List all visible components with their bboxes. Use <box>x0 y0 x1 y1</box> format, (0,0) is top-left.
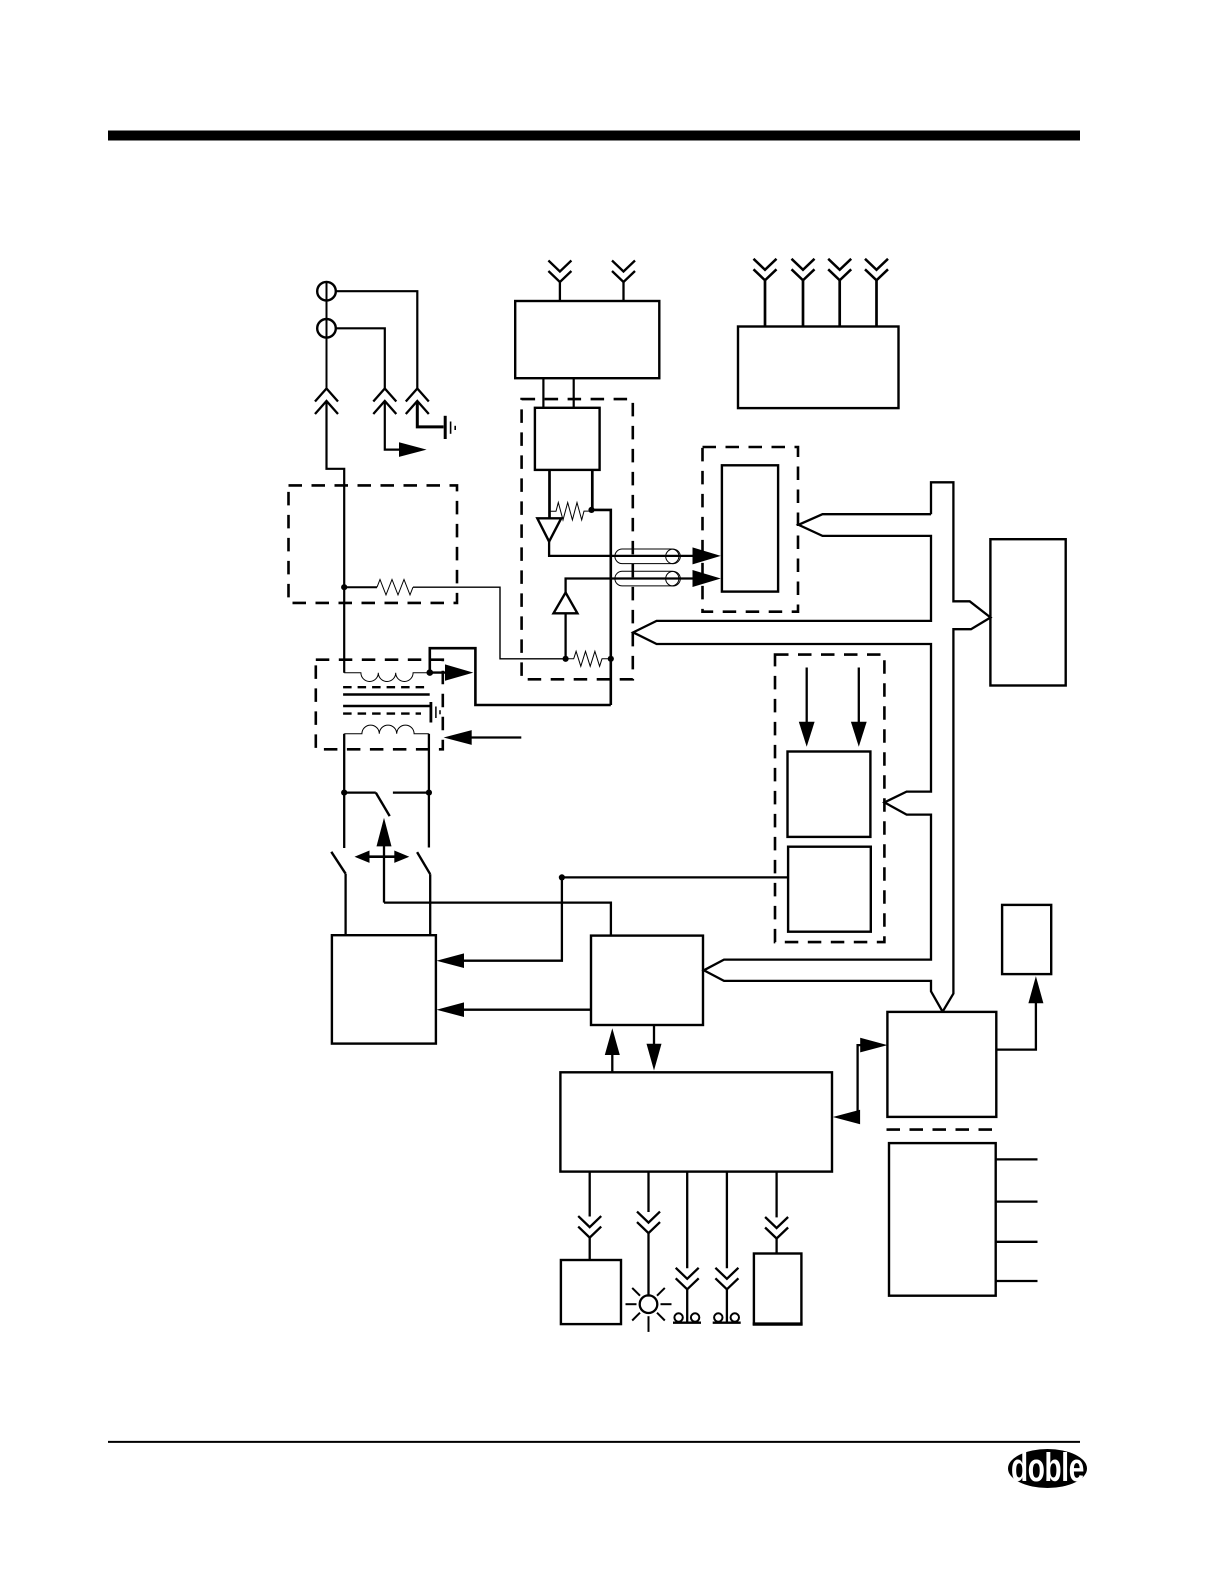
wire U1 to U2 left <box>542 378 544 408</box>
stub pin 4 <box>996 1280 1038 1282</box>
connector chevrons CH8 <box>828 259 851 281</box>
arrow A11 (U7 to U12 down) <box>653 1025 655 1046</box>
box U5 (right module fed by bus) <box>990 539 1065 685</box>
stub pin 3 <box>996 1241 1038 1243</box>
transformer shield dashed lines <box>343 686 430 688</box>
node dot N2 <box>588 507 594 513</box>
wire CH6 to U3 <box>764 280 767 327</box>
wire AR2 input down to node N3 <box>564 613 566 659</box>
dashed box DB3 (isolation module) <box>703 447 799 612</box>
actuator arrow A6 (up) <box>377 818 392 847</box>
node dot N5 (transformer primary top) <box>427 669 434 676</box>
wire U2 right output to node N2 <box>591 470 594 511</box>
data bus rail (hollow) <box>931 482 991 1011</box>
wire AR1 output to cable W1 <box>549 542 692 556</box>
arrow A14 (supply input 2) <box>858 668 860 724</box>
arrow A8 into U6 <box>437 953 465 968</box>
actuator double arrow A7 <box>366 855 398 858</box>
wire N1 to resistor R1 <box>344 586 377 588</box>
wire CH8 to U3 <box>838 280 841 327</box>
wire N8 to square U10 <box>562 876 788 878</box>
box U4 (tall rect in DB3) <box>722 465 778 591</box>
arrow A13 (supply input 1) <box>806 668 808 724</box>
box U6 (motor drive module) <box>332 935 436 1043</box>
wire R1 to resistor R3 node <box>413 587 563 659</box>
connector chevrons CH2 <box>373 389 396 415</box>
resistor R2 <box>550 503 592 520</box>
wire U2 left output to amp AR1 <box>548 470 551 518</box>
output 4 wire and chevrons CH13 <box>726 1172 728 1269</box>
switch SW2 <box>331 852 345 874</box>
dashed box DB5 (power supplies) <box>775 655 884 943</box>
wire through terminals down to connector CH1 <box>326 282 328 389</box>
ground G1 <box>444 416 447 439</box>
link wire U8 to U11 <box>996 1002 1036 1050</box>
transformer dashed box DB4 <box>316 660 443 750</box>
wire U1 to U2 right <box>573 378 575 408</box>
connector chevrons CH6 <box>754 259 777 281</box>
arrow A12 into U11 <box>1028 976 1043 1003</box>
cable symbol W1 (shielded pair) <box>615 549 679 564</box>
op-amp AR1 (buffer, pointing down) <box>537 518 561 541</box>
resistor R1 <box>377 580 413 595</box>
node dot N1 <box>341 584 347 590</box>
box U7 (control module) <box>591 936 703 1025</box>
node dot N8 <box>559 874 565 880</box>
stub pin 2 <box>996 1200 1038 1202</box>
wire CH5 to U1 <box>622 281 624 301</box>
wire CH2 down to arrow A1 <box>385 402 399 450</box>
transformer T1 secondary winding <box>344 725 429 734</box>
dashed box DB1 (input attenuator) <box>289 485 458 603</box>
svg-text:doble: doble <box>1011 1446 1084 1490</box>
arrow A3 head into U4 <box>693 570 721 587</box>
bus branch B1 (open arrow into DB3) <box>633 514 942 1012</box>
arrow A5 (DC input into transformer) <box>444 730 472 745</box>
switch SW1 <box>344 791 376 793</box>
box U10 (supply 2) <box>788 847 871 932</box>
thick return wire to transformer node <box>430 648 611 705</box>
terminal circle T2 <box>317 319 336 338</box>
arrow A4 from N5 into rail <box>430 671 446 673</box>
wire A9 from U7 <box>462 1009 591 1011</box>
transformer T1 primary winding <box>344 673 430 682</box>
wire from T1 to connector CH3 <box>336 291 418 388</box>
connector chevrons CH5 <box>612 261 635 283</box>
wire N7 down <box>428 793 430 848</box>
wire N1 down to transformer primary <box>343 587 345 673</box>
terminal circle T1 <box>317 282 336 301</box>
thick wire N2 to feedback rail <box>592 510 611 705</box>
shield ground G2 <box>429 702 432 723</box>
box U1 (top middle module) <box>515 301 659 378</box>
wire amp AR2 output to cable W2 <box>566 579 693 593</box>
bottom footer rule <box>108 1441 1080 1443</box>
output 5 wire and chevrons CH14 <box>775 1172 777 1218</box>
output 1 wire and chevrons CH10 <box>589 1172 591 1217</box>
box U14 (external device 1) <box>561 1260 621 1324</box>
cable symbol W2 (shielded pair) <box>615 571 679 586</box>
wire CH9 to U3 <box>875 280 878 327</box>
connector chevrons CH4 <box>548 261 571 283</box>
lamp DS1 <box>640 1295 658 1313</box>
wire A8 from node N8 <box>462 877 562 960</box>
box U15 (external device 2) <box>754 1254 802 1325</box>
node dot N4 <box>608 656 614 662</box>
arrow A2 head into U4 <box>693 547 721 564</box>
output 3 wire and chevrons CH12 <box>686 1172 688 1269</box>
stub pin 1 <box>996 1158 1038 1160</box>
relay contact K2 <box>714 1313 722 1321</box>
wire secondary right down <box>428 734 430 793</box>
box U9 (supply 1) <box>788 752 871 837</box>
arrow into U8 <box>860 1038 887 1053</box>
connector chevrons CH9 <box>865 259 888 281</box>
wire N6 down <box>343 793 345 848</box>
wire secondary left down <box>343 734 345 793</box>
wire CH7 to U3 <box>802 280 805 327</box>
box U13 (output module) <box>889 1143 996 1296</box>
output 2 wire and chevrons CH11 <box>647 1172 649 1212</box>
resistor R3 <box>566 651 611 666</box>
arrow into U12 <box>833 1110 860 1125</box>
node dot N6 <box>341 790 347 796</box>
connector chevrons CH7 <box>792 259 815 281</box>
switch SW3 <box>417 852 430 874</box>
node dot N3 <box>563 656 569 662</box>
transformer core lines <box>343 693 430 696</box>
wire CH1 down with jog into dashed box DB1 <box>327 402 345 587</box>
wire CH4 to U1 <box>559 281 561 301</box>
connector chevrons CH3 <box>406 389 429 415</box>
link arrows U8-U12 <box>856 1045 861 1117</box>
box U11 (small top module) <box>1002 905 1051 974</box>
doble logo <box>1008 1446 1087 1490</box>
arrow A9 into U6 <box>437 1002 465 1017</box>
box U3 (top right module) <box>738 327 899 409</box>
box U2 (inner module of DB2) <box>535 408 600 470</box>
box U8 (interface module) <box>887 1012 996 1117</box>
arrow A10 (U12 to U7 up) <box>605 1028 620 1055</box>
connector chevrons CH1 <box>315 389 338 415</box>
box U12 (processor board) <box>560 1072 832 1171</box>
top header rule <box>108 131 1080 141</box>
arrow A1 head <box>399 442 427 457</box>
op-amp AR2 (buffer, pointing up) <box>554 593 578 614</box>
wire actuator to U7 <box>384 903 611 936</box>
wire CH3 down to ground G1 <box>417 402 443 427</box>
node dot N7 <box>426 790 432 796</box>
wire from T2 to connector CH2 <box>336 328 385 388</box>
dashed separator between U8 and U13 <box>887 1128 998 1131</box>
relay contact K1 <box>674 1313 682 1321</box>
dashed box DB2 (amplifier section) <box>522 399 633 679</box>
